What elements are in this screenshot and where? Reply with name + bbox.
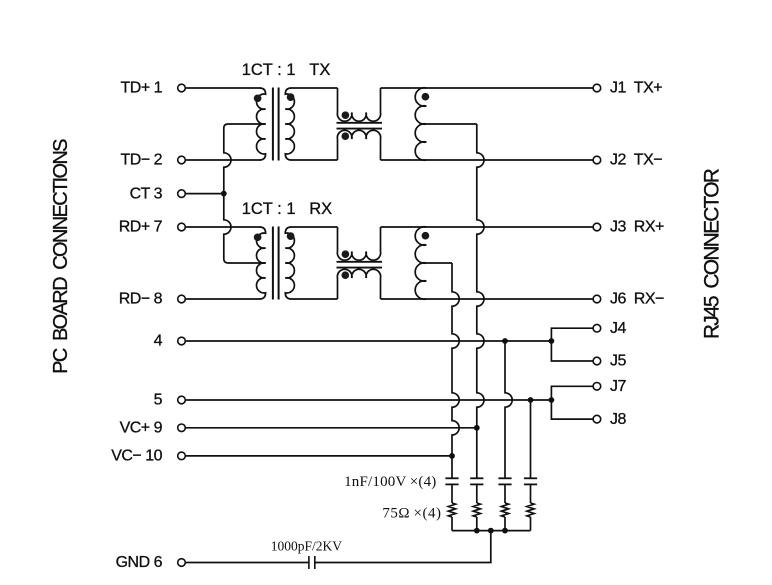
phase dot RX choke bottom	[341, 271, 349, 279]
wire R1 to ground rail	[451, 517, 453, 531]
wire RX winding center tap to x=452	[426, 262, 452, 264]
capacitor C1 1nF/100V	[445, 478, 458, 484]
svg-text:RD− 8: RD− 8	[119, 291, 163, 308]
transformer TX isolation secondary winding	[285, 88, 294, 160]
wire R3 to ground rail	[504, 517, 506, 531]
pin terminal J7	[593, 383, 601, 391]
wire RX bottom rail pin to primary	[186, 298, 261, 300]
choke TX core line 1	[337, 122, 383, 124]
svg-text:TD− 2: TD− 2	[120, 152, 162, 169]
pin terminal 3 (CT 3)	[178, 190, 186, 198]
junction rail / C2 column	[474, 528, 480, 534]
pin terminal J2	[593, 156, 601, 164]
pin terminal 8 (RD- 8)	[178, 295, 186, 303]
choke RX common-mode top winding	[337, 227, 380, 260]
svg-text:5: 5	[154, 392, 163, 409]
choke TX common-mode bottom winding	[337, 130, 380, 160]
choke RX core line 2	[337, 267, 383, 269]
capacitor C5 1000pF/2KV	[309, 556, 315, 569]
pin terminal 5 (5)	[178, 396, 186, 404]
wire TX top rail secondary to choke	[291, 87, 338, 89]
wire J4/J5 tap down to C3 (hop over pin5 wire)	[505, 341, 512, 478]
svg-text:1000pF/2KV: 1000pF/2KV	[271, 539, 343, 554]
wire RX bottom rail choke to J6	[381, 298, 593, 300]
wire termination common rail	[452, 530, 531, 532]
junction VC+ on TX tap line	[474, 425, 480, 431]
svg-text:1nF/100V ×(4): 1nF/100V ×(4)	[344, 474, 436, 490]
phase dot TX primary	[254, 94, 262, 102]
wire C4 to R4	[530, 484, 532, 503]
svg-text:CT 3: CT 3	[130, 185, 163, 202]
svg-text:J4: J4	[610, 320, 627, 337]
wire TX bottom rail choke to J2	[381, 159, 593, 161]
choke RX common-mode bottom winding	[337, 269, 380, 299]
junction CT pin 3	[221, 191, 227, 197]
wire RX top rail choke to J3	[381, 226, 593, 228]
wire CT primary center taps TX-RX with hops	[224, 124, 266, 263]
svg-text:J2 TX−: J2 TX−	[610, 152, 662, 169]
phase dot TX line-side winding	[422, 93, 430, 101]
pin terminal J4	[593, 324, 601, 332]
phase dot TX choke top	[342, 111, 350, 119]
pin terminal J5	[593, 357, 601, 365]
junction rail / ground stub	[488, 528, 494, 534]
wire C5 right plate to termination rail	[315, 531, 491, 563]
junction pin5 / C4 column	[528, 397, 534, 403]
svg-text:J7: J7	[610, 378, 627, 395]
pin terminal J3	[593, 223, 601, 231]
svg-text:1CT : 1 TX: 1CT : 1 TX	[242, 61, 331, 79]
transformer TX isolation core line 2	[278, 88, 280, 161]
phase dot RX secondary	[287, 232, 295, 240]
wire TX winding center tap to x=476.8	[426, 123, 477, 125]
junction rail / C3 column	[502, 528, 508, 534]
pin terminal J8	[593, 415, 601, 423]
wire TX top rail choke to J1	[381, 87, 593, 89]
svg-text:75Ω ×(4): 75Ω ×(4)	[382, 506, 441, 522]
wire TX top rail pin to primary	[186, 87, 261, 89]
resistor R2 75 ohm	[473, 503, 480, 517]
pin terminal 4 (4)	[178, 337, 186, 345]
wire RX top rail pin to primary	[186, 226, 261, 228]
svg-text:J5: J5	[610, 353, 627, 370]
resistor R4 75 ohm	[527, 503, 534, 517]
svg-text:J1 TX+: J1 TX+	[610, 80, 662, 97]
resistor R3 75 ohm	[501, 503, 508, 517]
pin terminal 2 (TD- 2)	[178, 156, 186, 164]
capacitor C4 1nF/100V	[524, 478, 537, 484]
svg-text:PC BOARD CONNECTIONS: PC BOARD CONNECTIONS	[50, 139, 72, 374]
wire VC+ 9 to TX tap line	[186, 427, 477, 429]
wire C1 to R1	[451, 484, 453, 503]
choke RX core line 1	[337, 261, 383, 263]
transformer RX isolation core line 1	[272, 227, 274, 300]
phase dot RX choke top	[342, 250, 350, 258]
svg-text:VC+ 9: VC+ 9	[120, 420, 163, 437]
pin terminal 6 (GND 6)	[178, 559, 186, 567]
svg-text:1CT : 1 RX: 1CT : 1 RX	[242, 200, 332, 218]
wire VC- 10 to RX tap line	[186, 455, 452, 457]
transformer RX isolation secondary winding	[285, 227, 294, 299]
inductor RX line-side center-tapped winding	[415, 227, 426, 299]
svg-text:GND 6: GND 6	[116, 554, 163, 571]
pin terminal 10 (VC- 10)	[178, 452, 186, 460]
svg-text:J3 RX+: J3 RX+	[610, 219, 664, 236]
wire RX center tap down to C1 (hops over rails)	[452, 263, 459, 478]
wire TX center tap down to C2 (hops over rails)	[477, 124, 484, 478]
wire J7/J8 tap down to C4	[530, 400, 532, 478]
svg-text:RJ45 CONNECTOR: RJ45 CONNECTOR	[701, 168, 724, 339]
junction pin5 / J7-J8 branch	[549, 397, 555, 403]
svg-text:J6 RX−: J6 RX−	[610, 291, 664, 308]
wire RX top rail secondary to choke	[291, 226, 338, 228]
wire fork to J7 and J8	[551, 386, 592, 419]
wire C2 to R2	[476, 484, 478, 503]
junction pin4 / C3 column	[502, 338, 508, 344]
wire C3 to R3	[504, 484, 506, 503]
junction pin4 / J4-J5 branch	[549, 338, 555, 344]
wire pin 5 to J7/J8 node	[186, 399, 552, 401]
svg-text:4: 4	[154, 333, 163, 350]
svg-text:RD+ 7: RD+ 7	[119, 219, 163, 236]
phase dot RX line-side winding	[422, 232, 430, 240]
pin terminal 9 (VC+ 9)	[178, 424, 186, 432]
transformer RX isolation core line 2	[278, 227, 280, 300]
pin terminal J6	[593, 295, 601, 303]
phase dot TX secondary	[287, 93, 295, 101]
wire R2 to ground rail	[476, 517, 478, 531]
junction VC- on RX tap line	[449, 453, 455, 459]
phase dot RX primary	[254, 233, 262, 241]
wire RX bottom rail secondary to choke	[291, 298, 338, 300]
capacitor C3 1nF/100V	[498, 478, 511, 484]
transformer TX isolation core line 1	[272, 88, 274, 161]
wire fork to J4 and J5	[551, 328, 592, 361]
transformer RX isolation primary winding	[256, 227, 265, 299]
svg-text:J8: J8	[610, 411, 627, 428]
pin terminal J1	[593, 84, 601, 92]
choke TX common-mode top winding	[337, 88, 380, 121]
phase dot TX choke bottom	[341, 132, 349, 140]
wire GND pin to C5 left plate	[186, 562, 309, 564]
transformer TX isolation primary winding	[256, 88, 265, 160]
svg-text:VC− 10: VC− 10	[111, 448, 162, 465]
wire TX bottom rail pin to primary	[186, 159, 261, 161]
choke TX core line 2	[337, 128, 383, 130]
pin terminal 1 (TD+ 1)	[178, 84, 186, 92]
svg-text:TD+ 1: TD+ 1	[120, 80, 162, 97]
wire CT pin 3 to junction	[186, 193, 224, 195]
pin terminal 7 (RD+ 7)	[178, 223, 186, 231]
resistor R1 75 ohm	[448, 503, 455, 517]
wire pin 4 to J4/J5 node	[186, 340, 552, 342]
wire R4 to ground rail	[530, 517, 532, 531]
capacitor C2 1nF/100V	[470, 478, 483, 484]
inductor TX line-side center-tapped winding	[415, 88, 426, 160]
wire TX bottom rail secondary to choke	[291, 159, 338, 161]
